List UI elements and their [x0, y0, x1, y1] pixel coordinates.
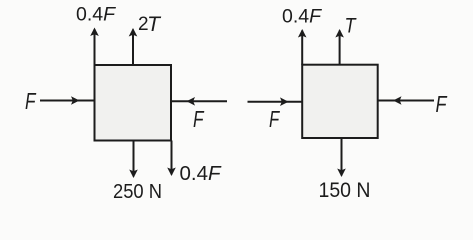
- svg-text:0.4F: 0.4F: [76, 4, 116, 26]
- svg-text:F: F: [193, 106, 205, 132]
- svg-text:0.4F: 0.4F: [282, 6, 322, 28]
- svg-text:2T: 2T: [138, 13, 162, 36]
- svg-text:F: F: [269, 106, 281, 132]
- svg-text:0.4F: 0.4F: [180, 163, 223, 185]
- svg-text:250 N: 250 N: [113, 181, 162, 203]
- svg-text:F: F: [25, 88, 37, 114]
- svg-text:150 N: 150 N: [319, 178, 371, 202]
- svg-text:F: F: [436, 91, 449, 117]
- svg-text:T: T: [345, 14, 358, 38]
